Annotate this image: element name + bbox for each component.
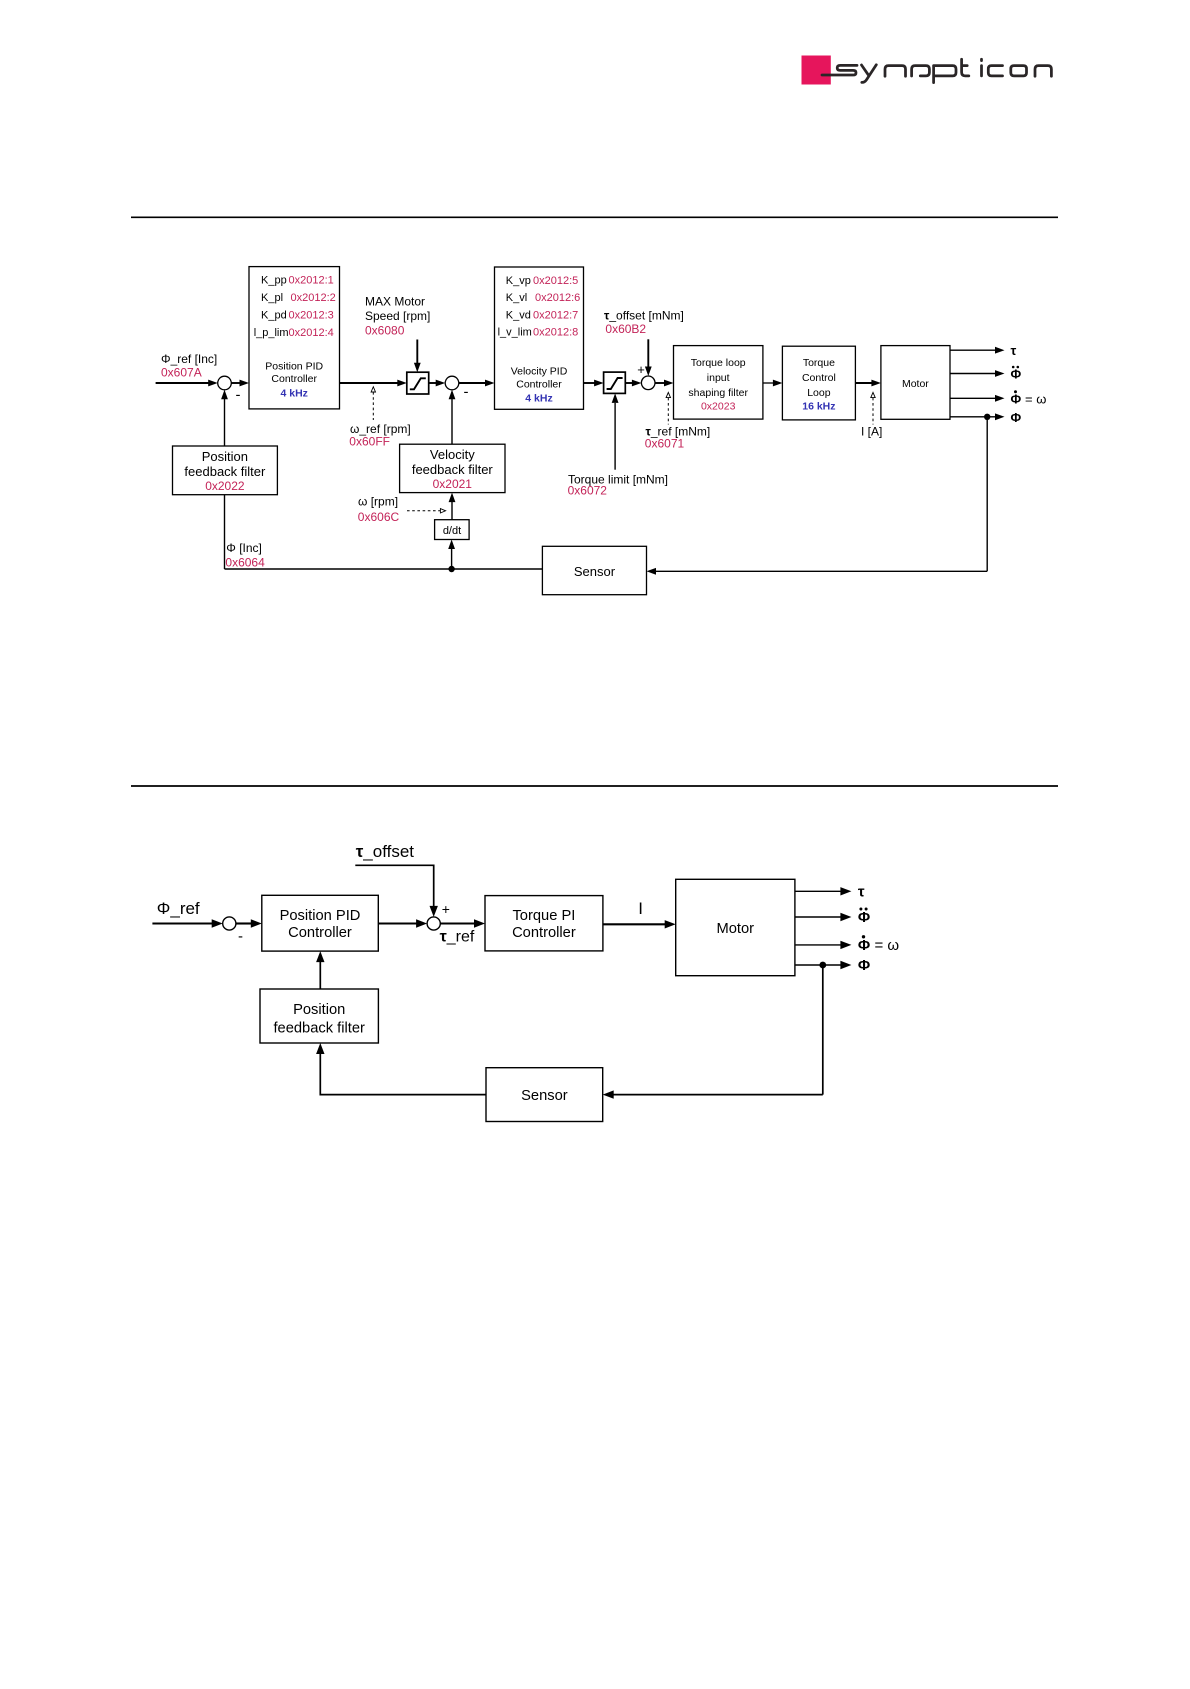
junction d/dt tap <box>448 566 454 572</box>
wire d/dt to velocity feedback filter <box>451 502 453 520</box>
svg-text:K_pd: K_pd <box>261 309 287 321</box>
logo square <box>802 56 831 85</box>
svg-text:0x2023: 0x2023 <box>701 401 736 413</box>
svg-text:Motor: Motor <box>717 921 755 937</box>
block Velocity PID Controller <box>495 267 584 409</box>
block Position PID Controller d2 <box>262 895 379 951</box>
svg-text:shaping filter: shaping filter <box>688 387 748 399</box>
wire motor output acceleration d2 <box>795 916 842 918</box>
summing junction S2b <box>427 917 440 930</box>
svg-text:I [A]: I [A] <box>861 425 882 439</box>
svg-text:+: + <box>442 901 450 917</box>
svg-text:0x2012:6: 0x2012:6 <box>535 292 580 304</box>
svg-text:l_v_lim: l_v_lim <box>498 326 532 338</box>
svg-text:4 kHz: 4 kHz <box>280 387 307 399</box>
svg-text:l_p_lim: l_p_lim <box>254 327 289 339</box>
svg-text:Torque: Torque <box>803 357 835 369</box>
wire input to summing point 1 <box>156 382 209 384</box>
wire shaping filter to Torque Control Loop <box>763 382 774 384</box>
block Torque PI Controller <box>485 896 603 951</box>
svg-text:Φ: Φ <box>858 957 870 974</box>
svg-text:0x60B2: 0x60B2 <box>605 322 646 336</box>
svg-text:τ_offset [mNm]: τ_offset [mNm] <box>604 309 684 323</box>
wire Velocity PID to limiter 2 <box>584 382 595 384</box>
svg-text:0x2012:3: 0x2012:3 <box>289 309 334 321</box>
svg-text:0x607A: 0x607A <box>161 365 202 379</box>
svg-text:K_vl: K_vl <box>506 292 527 304</box>
svg-text:0x6080: 0x6080 <box>365 323 405 337</box>
block Sensor <box>542 546 646 594</box>
wire Position PID to limiter 1 <box>340 382 399 384</box>
wire MAX speed into limiter 1 <box>416 340 418 364</box>
svg-text:MAX Motor: MAX Motor <box>365 294 425 308</box>
wire S1b to Position PID d2 <box>236 922 252 924</box>
svg-text:Controller: Controller <box>512 925 576 941</box>
svg-text:Position PID: Position PID <box>280 908 361 924</box>
block Position feedback filter d2 <box>260 989 378 1043</box>
svg-text:K_vd: K_vd <box>506 309 531 321</box>
svg-text:0x606C: 0x606C <box>358 510 400 524</box>
dashed probe omega_ref <box>371 387 375 392</box>
svg-text:Position: Position <box>202 449 248 464</box>
block Position feedback filter <box>173 446 278 495</box>
svg-text:Controller: Controller <box>516 379 562 391</box>
wire Position PID to S2b <box>378 922 417 924</box>
block d/dt <box>435 520 470 540</box>
svg-text:Velocity: Velocity <box>430 447 475 462</box>
svg-text:-: - <box>464 384 469 401</box>
svg-text:= ω: = ω <box>875 937 900 954</box>
svg-text:Control: Control <box>802 372 836 384</box>
svg-text:input: input <box>707 372 730 384</box>
svg-text:Sensor: Sensor <box>521 1088 568 1104</box>
svg-text:Velocity PID: Velocity PID <box>511 365 568 377</box>
wire motor output speed <box>950 397 996 399</box>
block Torque Control Loop <box>782 346 855 420</box>
svg-text:Controller: Controller <box>288 925 352 941</box>
svg-text:Φ: Φ <box>1011 410 1022 425</box>
block Velocity feedback filter <box>400 444 505 492</box>
logo wordmark synapticon <box>822 59 1051 82</box>
svg-text:0x2012:5: 0x2012:5 <box>533 275 578 287</box>
svg-text:-: - <box>238 928 243 945</box>
svg-text:0x2012:8: 0x2012:8 <box>533 326 578 338</box>
wire feedback motor to sensor d2 <box>822 965 824 1095</box>
svg-text:K_pl: K_pl <box>261 292 283 304</box>
dashed probe tau_ref <box>666 392 670 397</box>
wire input to S1b <box>152 922 212 924</box>
block Position PID Controller <box>249 267 340 409</box>
wire torque limit into limiter 2 <box>614 403 616 470</box>
svg-text:Sensor: Sensor <box>574 564 616 579</box>
svg-text:Loop: Loop <box>807 387 831 399</box>
junction position feedback tap <box>984 414 990 420</box>
svg-text:I: I <box>638 899 643 918</box>
wire limiter 2 to S3 <box>625 382 632 384</box>
svg-text:feedback filter: feedback filter <box>184 464 266 479</box>
limiter block 1 (saturation) <box>407 372 429 394</box>
wire junction to d/dt <box>451 549 453 569</box>
svg-text:d/dt: d/dt <box>443 525 461 537</box>
wire S2 to Velocity PID Controller <box>459 382 486 384</box>
svg-text:= ω: = ω <box>1025 391 1046 406</box>
svg-text:Motor: Motor <box>902 378 929 390</box>
wire motor output position <box>950 416 996 418</box>
summing junction S1b <box>223 917 236 930</box>
svg-text:Torque loop: Torque loop <box>691 357 746 369</box>
svg-text:Φ: Φ <box>1011 367 1022 382</box>
wire motor output acceleration <box>950 373 996 375</box>
svg-text:0x2012:4: 0x2012:4 <box>289 327 334 339</box>
wire motor output speed d2 <box>795 944 842 946</box>
wire motor output position d2 <box>795 964 842 966</box>
dashed probe omega <box>407 510 440 512</box>
svg-text:τ: τ <box>858 884 865 901</box>
svg-text:0x2012:7: 0x2012:7 <box>533 309 578 321</box>
svg-text:Φ: Φ <box>1011 391 1022 406</box>
wire Torque Control Loop to Motor <box>855 382 872 384</box>
svg-text:0x6072: 0x6072 <box>568 484 608 498</box>
svg-text:0x6071: 0x6071 <box>645 436 685 450</box>
svg-text:0x60FF: 0x60FF <box>349 434 390 448</box>
svg-text:τ_ref: τ_ref <box>440 929 475 946</box>
block Motor d2 <box>676 879 795 975</box>
svg-text:Position: Position <box>293 1002 345 1018</box>
svg-text:0x6064: 0x6064 <box>225 555 265 569</box>
block Motor <box>881 346 950 420</box>
svg-text:+: + <box>637 362 645 377</box>
svg-text:0x2012:2: 0x2012:2 <box>291 292 336 304</box>
summing junction S1 <box>218 376 232 390</box>
wire motor output torque d2 <box>795 890 842 892</box>
svg-text:ω [rpm]: ω [rpm] <box>358 495 398 509</box>
svg-text:Φ [Inc]: Φ [Inc] <box>226 541 262 555</box>
wire S1 to Position PID Controller <box>231 382 240 384</box>
svg-text:Controller: Controller <box>271 373 317 385</box>
wire limiter 1 to summing point 2 <box>429 382 437 384</box>
svg-text:Φ_ref [Inc]: Φ_ref [Inc] <box>161 352 217 366</box>
block Torque loop input shaping filter <box>674 346 763 420</box>
svg-text:16 kHz: 16 kHz <box>802 401 835 413</box>
wire velocity feedback filter to S2 <box>451 399 453 444</box>
wire position feedback filter to S1 <box>224 399 226 446</box>
wire S2b to Torque PI <box>440 922 475 924</box>
block Sensor d2 <box>486 1068 603 1122</box>
svg-text:Φ: Φ <box>858 937 870 954</box>
dashed probe I[A] <box>871 392 875 397</box>
svg-text:0x2022: 0x2022 <box>205 479 245 493</box>
wire sensor to position feedback filter d2 <box>320 1054 486 1095</box>
svg-text:K_pp: K_pp <box>261 275 287 287</box>
svg-text:Φ_ref: Φ_ref <box>157 899 200 918</box>
summing junction S3 <box>641 376 655 390</box>
rule 2 <box>131 785 1058 787</box>
rule 1 <box>131 216 1058 218</box>
wire motor output torque <box>950 349 996 351</box>
wire Torque PI to Motor d2 <box>603 923 666 925</box>
svg-text:0x2021: 0x2021 <box>433 477 473 491</box>
wire feedback motor to sensor <box>986 417 988 572</box>
svg-text:0x2012:1: 0x2012:1 <box>289 275 334 287</box>
svg-text:feedback filter: feedback filter <box>412 462 494 477</box>
svg-text:4 kHz: 4 kHz <box>525 392 552 404</box>
svg-text:τ: τ <box>1011 343 1017 358</box>
wire sensor to position feedback filter <box>225 568 543 570</box>
svg-text:Φ: Φ <box>858 909 870 926</box>
svg-text:τ_offset: τ_offset <box>356 842 415 861</box>
wire S3 to shaping filter <box>655 382 665 384</box>
svg-text:-: - <box>236 387 241 404</box>
svg-text:Torque PI: Torque PI <box>512 908 575 924</box>
summing junction S2 <box>445 376 459 390</box>
svg-text:K_vp: K_vp <box>506 275 531 287</box>
limiter block 2 (saturation) <box>604 372 626 393</box>
junction feedback tap d2 <box>819 962 826 969</box>
wire position feedback filter to Position PID d2 <box>319 962 321 989</box>
wire tau_offset into summing point 3 <box>647 339 649 367</box>
svg-text:Position PID: Position PID <box>265 360 323 372</box>
wire tau_offset leader to S2b <box>355 865 433 907</box>
svg-text:feedback filter: feedback filter <box>273 1021 365 1037</box>
svg-text:Speed [rpm]: Speed [rpm] <box>365 309 430 323</box>
